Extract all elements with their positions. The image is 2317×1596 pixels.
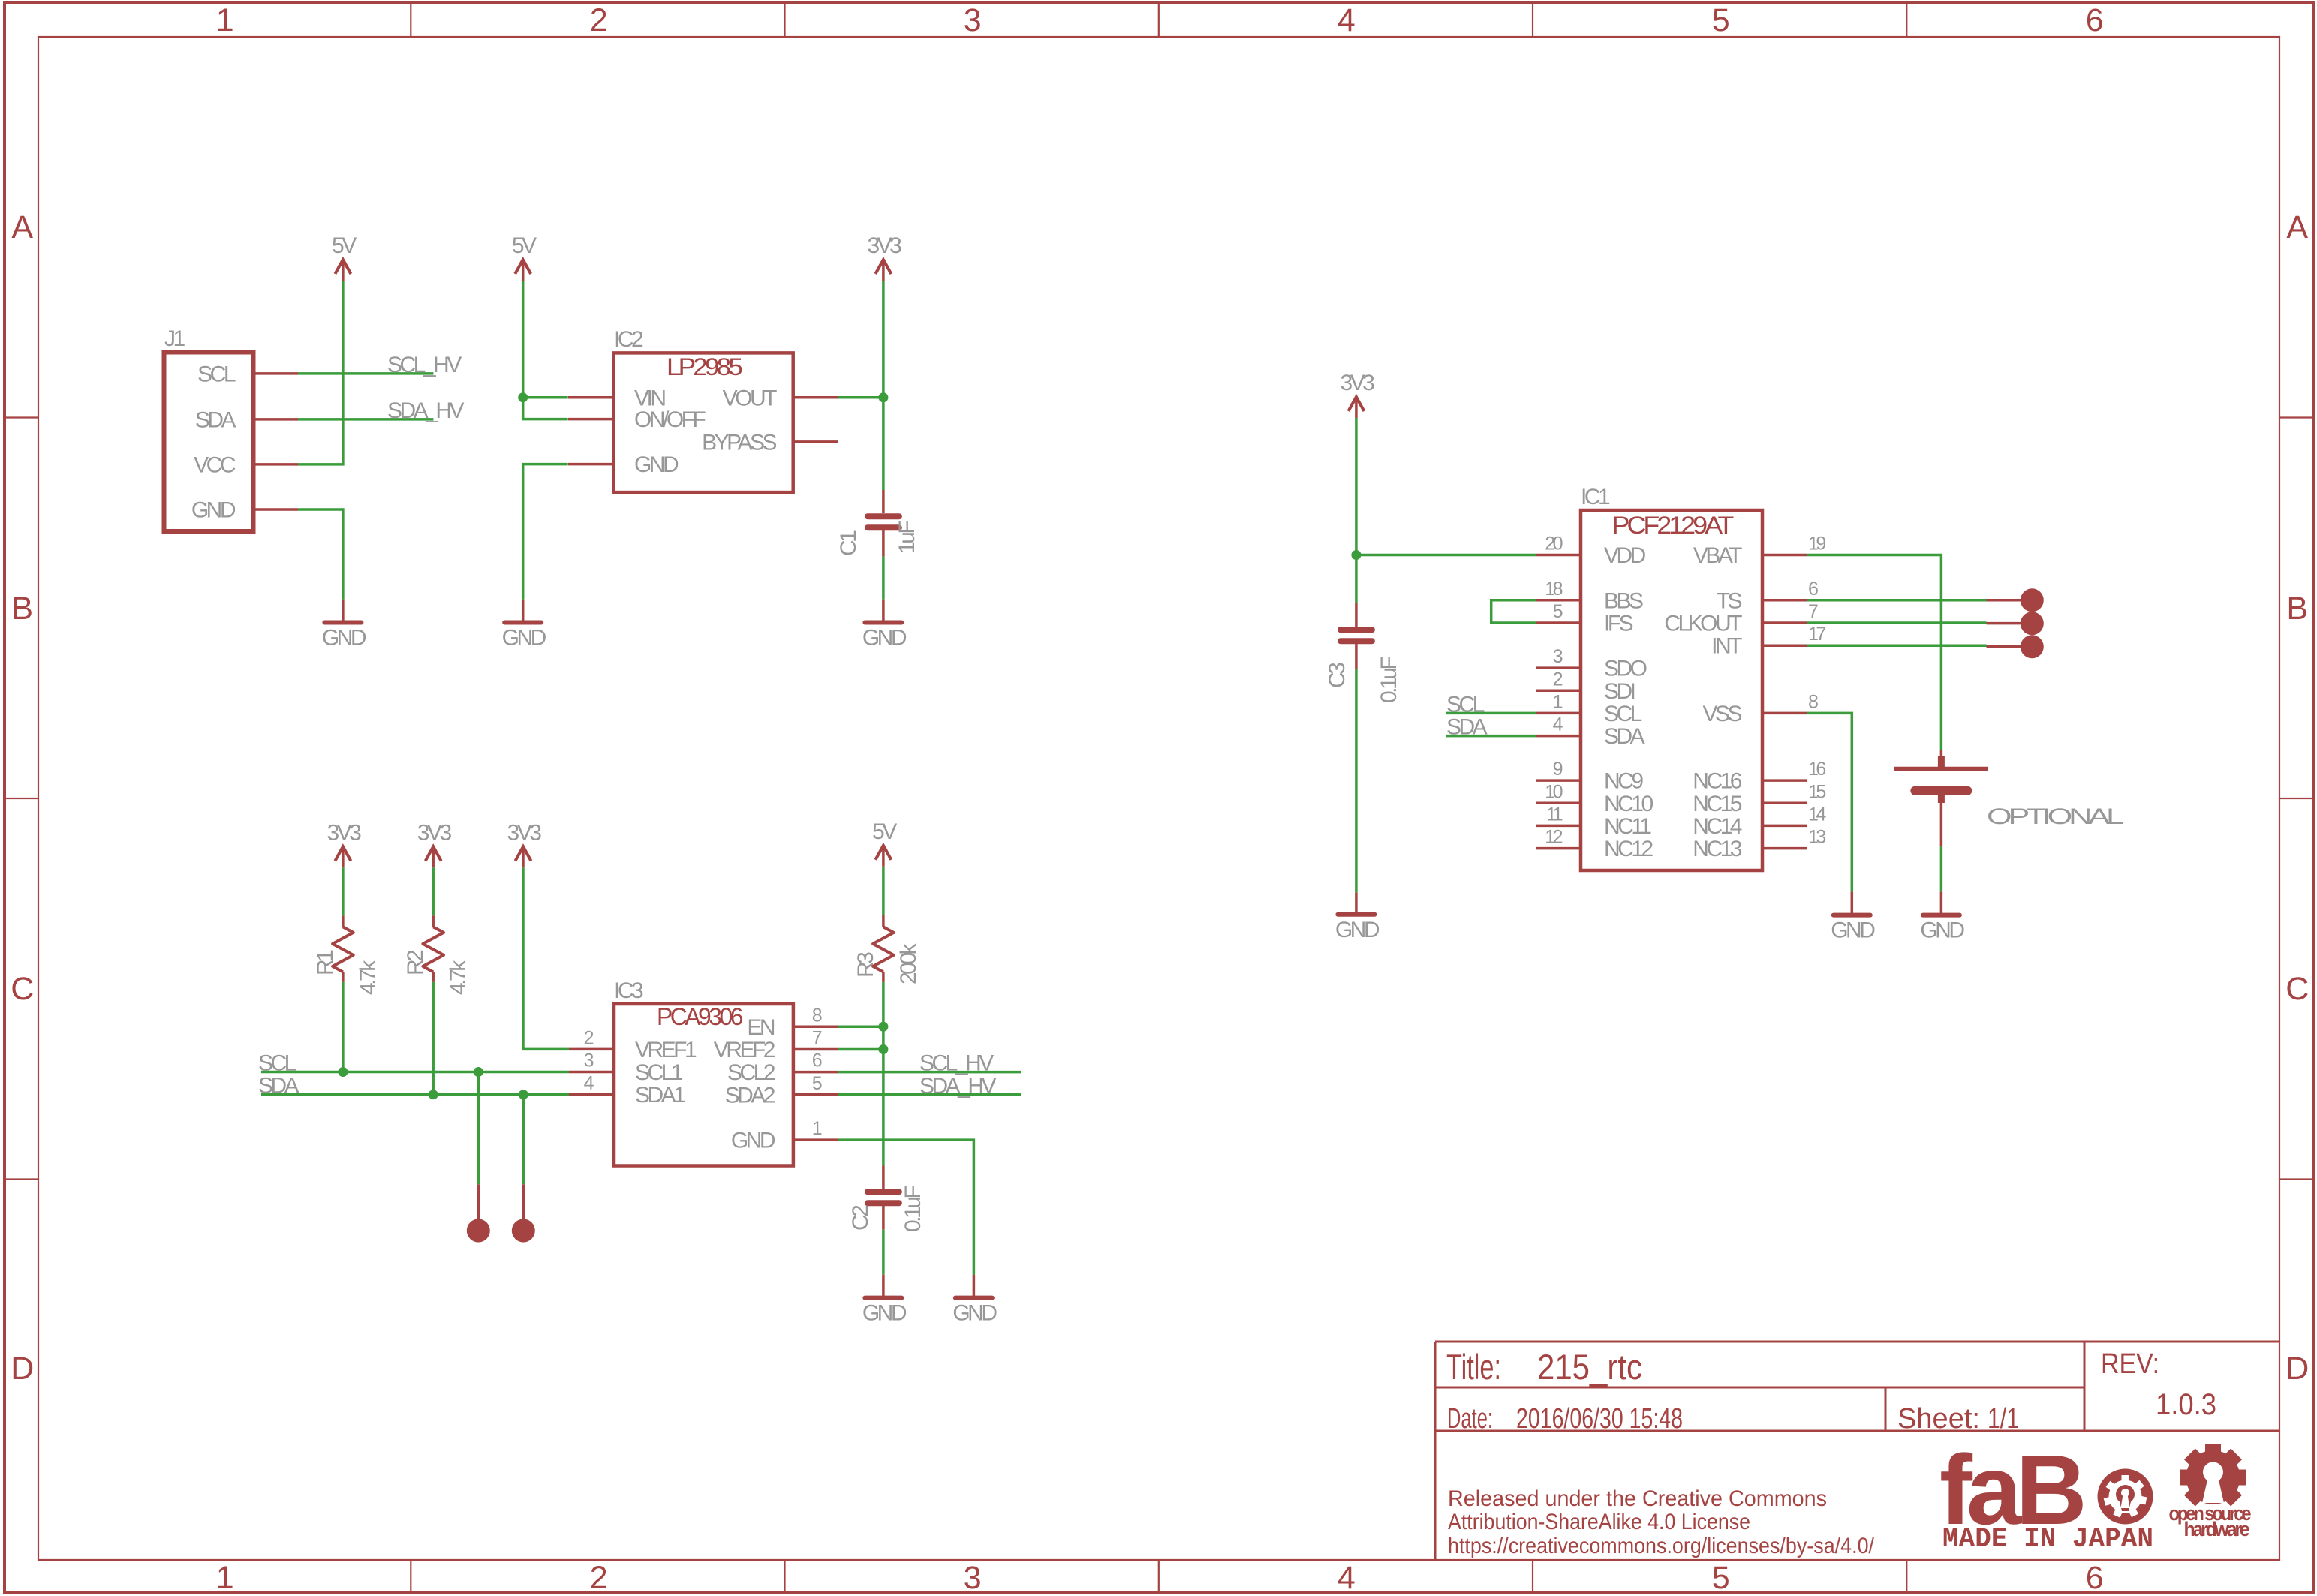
IC3 pin 4 SDA1 xyxy=(569,1073,685,1108)
capacitor C2 xyxy=(868,1166,899,1230)
row letters left xyxy=(11,209,33,1387)
svg-text:A: A xyxy=(11,209,33,245)
frame row ticks left xyxy=(6,418,38,1180)
resistor R1 xyxy=(333,915,354,982)
svg-text:https://creativecommons.org/li: https://creativecommons.org/licenses/by-… xyxy=(1448,1534,1875,1558)
test pad stub INT xyxy=(1987,645,2021,648)
wire IC2 VIN xyxy=(523,396,568,399)
svg-text:SCL_HV: SCL_HV xyxy=(919,1051,994,1076)
wire net SCL_HV from SCL2 xyxy=(838,1071,1021,1074)
svg-text:R1: R1 xyxy=(313,950,338,975)
svg-text:VSS: VSS xyxy=(1702,702,1741,726)
wire J1 VCC to 5V xyxy=(298,281,343,464)
svg-text:GND: GND xyxy=(862,626,907,651)
svg-text:18: 18 xyxy=(1545,579,1562,600)
svg-text:D: D xyxy=(2285,1351,2307,1387)
svg-text:A: A xyxy=(2286,209,2308,245)
junction at VOUT / C1 xyxy=(878,392,888,402)
svg-text:C2: C2 xyxy=(848,1205,873,1231)
wire net SDA_HV from SDA2 xyxy=(838,1093,1021,1096)
svg-text:14: 14 xyxy=(1808,804,1826,825)
svg-text:SCL: SCL xyxy=(1446,692,1485,717)
FaBo logo xyxy=(1939,1435,2153,1545)
power symbol 3V3 at C1 xyxy=(867,233,901,281)
ground symbol GND (C2) xyxy=(862,1275,907,1326)
svg-text:NC9: NC9 xyxy=(1604,769,1643,794)
IC2 pin BYPASS xyxy=(702,430,838,455)
IC1 pin 3 SDO xyxy=(1536,646,1646,681)
J1 pin VCC xyxy=(194,452,298,477)
IC1 pin 9 NC9 xyxy=(1536,759,1643,794)
svg-text:0.1uF: 0.1uF xyxy=(1377,657,1401,703)
wire 3V3 to R2 xyxy=(432,867,435,915)
svg-text:15: 15 xyxy=(1808,781,1825,802)
svg-text:SDI: SDI xyxy=(1604,679,1635,704)
frame column ticks top xyxy=(411,4,1906,37)
svg-text:11: 11 xyxy=(1546,804,1563,825)
svg-text:SDA: SDA xyxy=(195,407,236,432)
svg-text:13: 13 xyxy=(1808,827,1825,848)
svg-text:VREF1: VREF1 xyxy=(635,1038,697,1062)
ground symbol GND (J1) xyxy=(322,600,366,651)
solder pad 2 stub xyxy=(522,1184,525,1220)
wire R3 to EN/VREF2 riser and C2 xyxy=(882,982,885,1166)
wire INT to test pad xyxy=(1807,644,1987,647)
svg-text:OPTIONAL: OPTIONAL xyxy=(1987,804,2123,829)
svg-text:SCL2: SCL2 xyxy=(727,1060,775,1085)
resistor R2 xyxy=(423,915,444,982)
IC1 pin 7 CLKOUT xyxy=(1664,601,1818,636)
wire 3V3 riser to C1 xyxy=(882,281,885,490)
wire EN to riser xyxy=(838,1026,883,1029)
wire battery to GND xyxy=(1940,846,1943,891)
svg-text:SDA_HV: SDA_HV xyxy=(919,1074,997,1099)
test pad circle CLKOUT xyxy=(2021,612,2044,635)
column numbers bottom xyxy=(216,1560,2103,1596)
svg-text:B: B xyxy=(11,591,32,627)
svg-text:SDA1: SDA1 xyxy=(635,1083,685,1108)
svg-text:3: 3 xyxy=(964,1560,981,1596)
svg-text:GND: GND xyxy=(322,626,366,651)
svg-text:IC3: IC3 xyxy=(614,978,643,1003)
svg-text:VREF2: VREF2 xyxy=(714,1038,775,1062)
test pad stub TS xyxy=(1987,599,2021,602)
svg-text:GND: GND xyxy=(191,498,236,523)
J1 pin SDA xyxy=(195,407,298,432)
wire VSS to GND xyxy=(1807,713,1852,891)
test pad circle INT xyxy=(2021,635,2044,658)
svg-text:VOUT: VOUT xyxy=(723,386,778,410)
svg-text:C: C xyxy=(11,971,33,1007)
svg-text:SCL: SCL xyxy=(1604,702,1642,726)
svg-text:GND: GND xyxy=(634,452,679,477)
junction SDA/pad2 xyxy=(519,1090,528,1099)
svg-text:Released under the Creative Co: Released under the Creative Commons xyxy=(1448,1486,1827,1511)
svg-text:LP2985: LP2985 xyxy=(667,353,742,380)
svg-text:3V3: 3V3 xyxy=(1340,371,1374,395)
IC1 pin 8 VSS xyxy=(1702,691,1818,726)
title text xyxy=(1446,1347,1642,1387)
connector J1 xyxy=(164,353,254,532)
svg-text:4.7k: 4.7k xyxy=(356,960,381,995)
IC1 box xyxy=(1581,510,1762,870)
wire VDD net xyxy=(1356,554,1536,557)
svg-text:PCF2129AT: PCF2129AT xyxy=(1612,512,1734,539)
IC1 pin 12 NC12 xyxy=(1536,827,1653,862)
svg-text:6: 6 xyxy=(2086,1560,2103,1596)
svg-text:5: 5 xyxy=(1712,1560,1729,1596)
IC3 pin 7 VREF2 xyxy=(714,1028,838,1063)
svg-text:GND: GND xyxy=(731,1129,775,1153)
IC1 pin 19 VBAT xyxy=(1693,534,1826,569)
IC3 pin 1 GND xyxy=(731,1118,838,1153)
solder pad 1 circle xyxy=(467,1219,490,1243)
svg-text:NC13: NC13 xyxy=(1693,837,1742,861)
wire C3 to GND xyxy=(1355,669,1358,892)
ground symbol GND (IC2) xyxy=(502,600,546,651)
junction at VDD / C3 xyxy=(1351,550,1361,560)
open source hardware logo gear xyxy=(2180,1444,2246,1507)
svg-text:GND: GND xyxy=(1920,918,1964,943)
power symbol 3V3 at IC1 xyxy=(1340,371,1374,418)
svg-text:6: 6 xyxy=(2086,2,2103,38)
wire IC3 GND pin to GND xyxy=(838,1140,974,1275)
IC1 pin 18 BBS xyxy=(1536,579,1643,614)
power symbol 3V3 at VREF1 xyxy=(507,820,542,867)
ground symbol GND (C3) xyxy=(1335,892,1380,942)
svg-text:5V: 5V xyxy=(332,233,357,258)
svg-text:1.0.3: 1.0.3 xyxy=(2156,1388,2216,1421)
svg-text:NC10: NC10 xyxy=(1604,792,1653,816)
svg-text:IFS: IFS xyxy=(1604,612,1633,636)
resistor R3 xyxy=(873,915,894,982)
solder pad 2 circle xyxy=(512,1219,535,1243)
svg-text:NC16: NC16 xyxy=(1693,769,1742,794)
J1 pin GND xyxy=(191,498,298,523)
IC2 pin GND xyxy=(568,452,679,477)
svg-text:1/1: 1/1 xyxy=(1988,1403,2019,1435)
svg-text:PCA9306: PCA9306 xyxy=(657,1003,743,1030)
test pad stub CLKOUT xyxy=(1987,622,2021,625)
svg-text:17: 17 xyxy=(1808,624,1825,645)
svg-text:SDO: SDO xyxy=(1604,657,1647,681)
svg-text:GND: GND xyxy=(862,1301,907,1326)
test pad circle TS xyxy=(2021,588,2044,612)
title block frame xyxy=(1435,1342,2279,1560)
svg-text:1: 1 xyxy=(216,2,233,38)
svg-text:VDD: VDD xyxy=(1604,543,1646,568)
power symbol 5V at R3 xyxy=(872,819,897,867)
wire J1 GND down xyxy=(298,509,343,600)
IC3 pin 3 SCL1 xyxy=(569,1050,683,1086)
junction SCL/pad1 xyxy=(474,1067,483,1077)
IC2 pin ON/OFF xyxy=(568,407,706,432)
IC1 pin 2 SDI xyxy=(1536,669,1634,704)
ground symbol GND (C1) xyxy=(862,600,907,651)
svg-text:TS: TS xyxy=(1717,588,1742,613)
svg-text:19: 19 xyxy=(1808,534,1825,555)
svg-text:SDA: SDA xyxy=(1446,715,1488,740)
IC1 pin 11 NC11 xyxy=(1536,804,1651,839)
svg-text:SDA2: SDA2 xyxy=(725,1083,775,1108)
svg-text:12: 12 xyxy=(1545,827,1562,848)
svg-text:R3: R3 xyxy=(853,952,878,978)
svg-text:5: 5 xyxy=(1712,2,1729,38)
svg-text:NC14: NC14 xyxy=(1693,814,1742,839)
wire net SCL rail xyxy=(261,1071,569,1074)
svg-text:215_rtc: 215_rtc xyxy=(1537,1347,1642,1387)
wire VOUT to 3V3 riser xyxy=(838,396,883,399)
wire VBAT to battery xyxy=(1807,555,1941,750)
svg-text:2: 2 xyxy=(590,1560,606,1596)
svg-text:10: 10 xyxy=(1545,781,1562,802)
wire net SDA to IC1 xyxy=(1446,735,1536,738)
wire 3V3 to R1 xyxy=(342,867,345,915)
svg-text:IC2: IC2 xyxy=(614,327,643,352)
svg-text:GND: GND xyxy=(1335,918,1380,942)
svg-text:16: 16 xyxy=(1808,759,1825,780)
svg-text:NC11: NC11 xyxy=(1604,814,1651,839)
wire BBS-IFS loop xyxy=(1491,600,1536,623)
wire net SDA rail xyxy=(261,1093,569,1096)
IC1 pin 13 NC13 xyxy=(1693,827,1825,862)
svg-text:INT: INT xyxy=(1711,634,1742,659)
svg-text:3: 3 xyxy=(964,2,981,38)
wire net SCL to IC1 xyxy=(1446,712,1536,715)
IC1 pin 16 NC16 xyxy=(1693,759,1825,794)
svg-text:Title:: Title: xyxy=(1446,1347,1501,1387)
svg-text:C: C xyxy=(2285,971,2308,1007)
capacitor C1 xyxy=(868,490,899,557)
svg-text:C1: C1 xyxy=(836,530,861,556)
open source hardware text xyxy=(2169,1502,2252,1540)
svg-text:BYPASS: BYPASS xyxy=(702,430,776,455)
battery B1 xyxy=(1894,750,1988,846)
power symbol 5V at J1 xyxy=(332,233,357,281)
power symbol 3V3 at R2 xyxy=(417,820,452,867)
junction R1/SCL xyxy=(338,1067,348,1077)
IC3 pin 8 EN xyxy=(747,1005,838,1040)
wire 3V3 riser to VDD and C3 xyxy=(1355,418,1358,603)
wire TS to test pad xyxy=(1807,599,1987,602)
svg-text:SCL_HV: SCL_HV xyxy=(387,353,462,377)
IC3 pin 6 SCL2 xyxy=(727,1050,838,1086)
IC3 pin 2 VREF1 xyxy=(569,1027,697,1062)
svg-text:EN: EN xyxy=(747,1015,775,1040)
junction at IC2 VIN xyxy=(518,392,528,402)
column numbers top xyxy=(216,2,2103,38)
wire VREF2 to riser xyxy=(838,1048,883,1051)
svg-text:VBAT: VBAT xyxy=(1693,543,1742,568)
IC1 pin 10 NC10 xyxy=(1536,781,1653,816)
svg-text:IC1: IC1 xyxy=(1581,485,1610,509)
IC1 pin 14 NC14 xyxy=(1693,804,1826,839)
svg-text:GND: GND xyxy=(502,626,546,651)
svg-text:3V3: 3V3 xyxy=(326,820,361,845)
IC2 pin VIN xyxy=(568,386,665,410)
junction R2/SDA xyxy=(429,1090,438,1099)
svg-text:3V3: 3V3 xyxy=(867,233,901,258)
IC3 box xyxy=(614,1004,793,1166)
svg-text:SDA_HV: SDA_HV xyxy=(387,398,465,423)
date row xyxy=(1447,1403,2019,1435)
svg-text:20: 20 xyxy=(1545,534,1562,555)
svg-text:REV:: REV: xyxy=(2101,1348,2159,1380)
wire SCL to solder pad 1 xyxy=(477,1072,480,1185)
svg-text:GND: GND xyxy=(952,1301,997,1326)
svg-text:ON/OFF: ON/OFF xyxy=(634,407,706,432)
svg-text:SCL: SCL xyxy=(197,362,236,386)
svg-text:200k: 200k xyxy=(896,942,921,984)
svg-text:NC12: NC12 xyxy=(1604,837,1653,861)
power symbol 5V at IC2 xyxy=(512,233,537,281)
wire SDA to solder pad 2 xyxy=(522,1095,525,1185)
ground symbol GND (battery) xyxy=(1920,892,1964,943)
wire net SCL_HV from J1 xyxy=(298,372,433,375)
junction EN/riser xyxy=(878,1022,888,1032)
ground symbol GND (VSS) xyxy=(1831,892,1875,943)
svg-text:3V3: 3V3 xyxy=(507,820,542,845)
svg-text:R2: R2 xyxy=(403,950,428,975)
IC1 pin 20 VDD xyxy=(1536,534,1645,569)
IC1 pin 4 SDA xyxy=(1536,714,1644,750)
IC3 pin 5 SDA2 xyxy=(725,1073,838,1108)
wire CLKOUT to test pad xyxy=(1807,621,1987,624)
svg-text:SCL: SCL xyxy=(258,1051,296,1076)
wire C1 to GND xyxy=(882,557,885,600)
capacitor C3 xyxy=(1341,603,1372,669)
wire IC2 GND down xyxy=(523,464,568,600)
junction VREF2/riser xyxy=(878,1044,888,1054)
svg-text:5V: 5V xyxy=(872,819,897,844)
IC1 pin 17 INT xyxy=(1711,624,1825,659)
power symbol 3V3 at R1 xyxy=(326,820,361,867)
svg-text:Date:: Date: xyxy=(1447,1403,1493,1435)
IC1 pin 6 TS xyxy=(1717,579,1818,614)
svg-text:4: 4 xyxy=(1338,1560,1355,1596)
wire R2 to SDA rail xyxy=(432,982,435,1095)
svg-text:VCC: VCC xyxy=(194,452,236,477)
IC1 pin 15 NC15 xyxy=(1693,781,1825,816)
wire R1 to SCL rail xyxy=(342,982,345,1072)
svg-text:0.1uF: 0.1uF xyxy=(901,1186,925,1232)
svg-text:1: 1 xyxy=(216,1560,233,1596)
IC2 box xyxy=(614,353,793,492)
svg-text:Attribution-ShareAlike 4.0 Lic: Attribution-ShareAlike 4.0 License xyxy=(1448,1510,1750,1534)
svg-text:Sheet:: Sheet: xyxy=(1897,1403,1980,1435)
IC1 pin 1 SCL xyxy=(1536,691,1641,726)
solder pad 1 stub xyxy=(477,1184,480,1220)
svg-text:2016/06/30 15:48: 2016/06/30 15:48 xyxy=(1516,1403,1683,1435)
wire net SDA_HV from J1 xyxy=(298,418,433,421)
IC1 pin 5 IFS xyxy=(1536,601,1632,636)
frame column ticks bottom xyxy=(411,1560,1906,1593)
wire 5V to R3 xyxy=(882,867,885,915)
wire 3V3 riser to VREF1 xyxy=(523,867,569,1049)
wire C2 to GND xyxy=(882,1230,885,1275)
IC2 pin VOUT xyxy=(723,386,838,410)
svg-text:SDA: SDA xyxy=(258,1074,299,1099)
license text xyxy=(1448,1486,1875,1558)
svg-text:2: 2 xyxy=(590,2,606,38)
svg-text:5V: 5V xyxy=(512,233,537,258)
svg-text:SCL1: SCL1 xyxy=(635,1060,683,1085)
frame row ticks right xyxy=(2279,418,2312,1180)
wire 5V riser to IC2 VIN and ON/OFF xyxy=(523,281,568,419)
svg-text:GND: GND xyxy=(1831,918,1875,943)
svg-text:C3: C3 xyxy=(1325,663,1350,688)
svg-text:NC15: NC15 xyxy=(1693,792,1742,816)
svg-text:1uF: 1uF xyxy=(895,521,919,554)
row letters right xyxy=(2285,209,2308,1387)
svg-text:D: D xyxy=(11,1351,32,1387)
svg-text:CLKOUT: CLKOUT xyxy=(1664,612,1742,636)
svg-text:hardware: hardware xyxy=(2184,1518,2250,1540)
svg-text:MADE IN JAPAN: MADE IN JAPAN xyxy=(1942,1524,2153,1555)
J1 pin SCL xyxy=(197,362,298,386)
ground symbol GND (IC3) xyxy=(952,1275,997,1326)
svg-text:B: B xyxy=(2286,591,2306,627)
svg-text:3V3: 3V3 xyxy=(417,820,452,845)
svg-text:SDA: SDA xyxy=(1604,724,1645,749)
svg-text:BBS: BBS xyxy=(1604,588,1643,613)
svg-text:J1: J1 xyxy=(164,326,185,351)
svg-text:4.7k: 4.7k xyxy=(446,960,471,995)
svg-text:4: 4 xyxy=(1338,2,1355,38)
